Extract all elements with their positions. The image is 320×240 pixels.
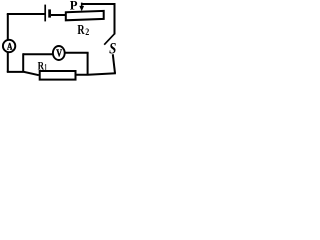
wire right vertical upper (to switch)	[114, 3, 116, 34]
wire left vertical (battery negative to bottom-left corner)	[7, 14, 9, 72]
svg-text:V: V	[56, 48, 62, 59]
wire bottom left (corner to R1)	[7, 72, 39, 75]
battery cell long plate	[44, 5, 46, 22]
svg-text:R: R	[77, 23, 85, 38]
svg-text:A: A	[7, 42, 12, 52]
wire battery to rheostat R2	[51, 14, 66, 16]
resistor R1 box	[40, 71, 76, 80]
wire top left (corner to battery)	[7, 13, 45, 15]
battery cell short plate	[48, 9, 51, 17]
wire right vertical lower (switch to bottom-right corner)	[113, 54, 115, 73]
rheostat slider arrow	[81, 3, 83, 7]
wire voltmeter left leg	[22, 53, 24, 72]
svg-text:P: P	[70, 0, 78, 13]
svg-text:R: R	[38, 59, 45, 73]
wire voltmeter right leg	[87, 53, 89, 75]
wire voltmeter right horizontal	[65, 52, 89, 54]
voltmeter V	[53, 46, 65, 60]
svg-text:1: 1	[44, 62, 47, 72]
rheostat R2 body box	[66, 11, 104, 20]
switch S blade (open)	[104, 34, 115, 45]
svg-text:2: 2	[85, 27, 89, 37]
ammeter A	[3, 40, 15, 52]
wire voltmeter left horizontal	[23, 53, 53, 55]
wire slider to right side (top)	[81, 3, 116, 5]
wire bottom right (corner to R1)	[76, 73, 116, 75]
